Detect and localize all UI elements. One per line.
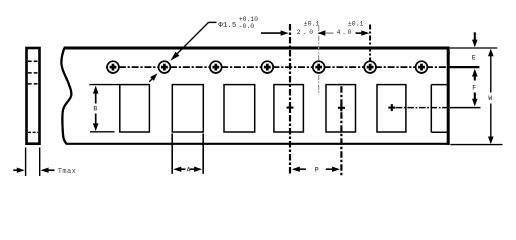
hole diameter leader [209,21,217,23]
svg-text:Tmax: Tmax [58,168,76,176]
sprocket hole 3 [210,61,222,73]
pocket 4 [274,85,304,132]
dimension A arrow left [173,167,181,172]
sprocket hole 6 centerline [369,25,371,72]
dimension F arrow up [472,69,478,77]
dimension B arrow up [93,86,99,94]
pocket 4 centerline [289,24,291,175]
svg-text:E: E [472,54,476,61]
hole row reference tick right [449,66,480,68]
tape top edge [64,47,450,50]
dimension B extension bottom [90,131,115,133]
side view hidden line pocket bottom [28,131,38,133]
svg-text:±0.1: ±0.1 [304,20,320,27]
pocket 4 center cross [287,104,294,111]
dimension A extension left [171,134,173,174]
dimension A arrow right [190,168,195,170]
dimension 2.0 arrow pointing right at pocket centerline [261,32,282,34]
pocket 5 [326,85,356,132]
svg-text:2.0: 2.0 [297,29,316,36]
pocket 5 center cross [338,104,345,111]
dimension W arrow up [488,49,494,57]
svg-text:4.0: 4.0 [337,29,354,36]
hole diameter leader arrowhead lower [150,73,157,81]
svg-text:±0.1: ±0.1 [348,20,364,27]
hole diameter leader arrowhead upper [170,52,179,61]
sprocket hole 7 [416,61,428,73]
dimension 2.0 arrow pointing left at hole centerline [317,30,325,35]
svg-text:Φ1.5: Φ1.5 [218,22,237,30]
svg-text:B: B [93,106,97,113]
pocket 3 [224,85,255,132]
sprocket hole 2 [159,61,171,73]
svg-text:W: W [488,95,492,102]
sprocket hole 1 [107,61,119,73]
dimension P arrow left [292,167,300,172]
dimension P arrow right [326,168,333,170]
pocket 6 [377,85,406,132]
Tmax extension line right [39,148,41,177]
pocket 1 [120,85,150,132]
Tmax extension line left [25,148,27,177]
sprocket hole 6 [364,61,376,73]
F reference dash-dot line [396,107,450,109]
sprocket hole centerline [106,66,447,68]
sprocket hole 4 [261,61,273,73]
side view tape rectangle [27,48,40,144]
dimension E top reference line [450,47,497,49]
Tmax arrow left [13,169,17,171]
tape bottom edge [67,143,450,145]
dimension A extension right [202,134,204,174]
svg-text:P: P [315,167,319,174]
pocket 2 [172,85,203,132]
pocket 6 center cross [388,104,395,111]
side view hidden line hole bottom [28,72,38,74]
dimension 4.0 arrow pointing right at hole 6 centerline [356,32,363,34]
svg-text:A: A [187,167,191,174]
sprocket hole 5 [313,61,325,73]
svg-text:-0.0: -0.0 [239,23,255,30]
dimension E arrow down [474,32,476,41]
dimension B arrow down [95,114,97,126]
side view hidden line pocket top [28,83,38,85]
side view hidden line hole top [28,60,38,62]
dimension W arrow down [490,104,492,139]
tape left break edge [61,48,71,145]
pocket 7 truncated [431,85,447,133]
sprocket hole 5 centerline gray [318,26,320,95]
Tmax arrow right [48,169,55,171]
dimension B extension top [89,84,119,86]
tape right edge [447,47,450,145]
pocket 5 centerline [340,86,342,175]
svg-text:F: F [472,85,476,92]
bottom reference line right [450,144,502,146]
dimension F arrow down [474,93,476,100]
